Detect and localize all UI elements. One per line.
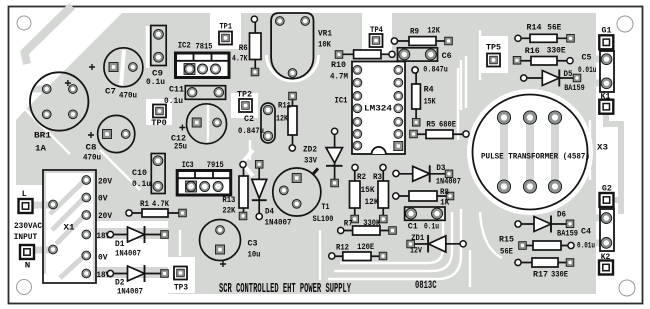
test point TP2	[237, 90, 252, 113]
resistor R16	[513, 46, 573, 66]
svg-text:T1: T1	[322, 202, 330, 212]
regulator IC3 7915	[177, 160, 231, 195]
svg-text:0.01u: 0.01u	[577, 241, 595, 251]
terminal G1	[599, 26, 613, 50]
mounting hole bottom-right	[619, 280, 635, 296]
svg-text:C4: C4	[581, 227, 591, 237]
svg-text:330E: 330E	[547, 46, 566, 56]
capacitor C3	[200, 220, 261, 268]
svg-text:BR1: BR1	[34, 131, 51, 141]
op-amp IC1 LM324	[335, 62, 406, 155]
zener ZD2	[303, 128, 343, 187]
svg-text:1K: 1K	[440, 198, 450, 208]
svg-text:680E: 680E	[439, 120, 456, 130]
resistor R14	[515, 23, 574, 43]
svg-text:TP5: TP5	[486, 43, 501, 53]
test point TP4	[370, 25, 384, 47]
svg-text:R4: R4	[424, 85, 434, 95]
svg-text:1N4007: 1N4007	[115, 249, 141, 259]
svg-text:G1: G1	[602, 26, 612, 36]
connector X1	[43, 170, 96, 283]
svg-text:G2: G2	[602, 184, 612, 194]
svg-text:22K: 22K	[222, 206, 236, 216]
svg-text:0V: 0V	[98, 253, 108, 263]
svg-text:0.847u: 0.847u	[423, 65, 448, 75]
svg-text:LM324: LM324	[364, 104, 392, 114]
svg-text:BA159: BA159	[557, 229, 578, 239]
svg-text:R13: R13	[222, 195, 235, 205]
resistor R12	[329, 242, 387, 261]
svg-text:20V: 20V	[98, 177, 113, 187]
regulator IC2 7815	[176, 41, 230, 78]
svg-text:12K: 12K	[427, 26, 440, 36]
resistor R6	[232, 16, 261, 76]
svg-text:7815: 7815	[196, 42, 213, 52]
svg-text:R11: R11	[278, 101, 291, 111]
svg-text:R2: R2	[357, 172, 366, 182]
mounting hole bottom-left	[17, 280, 32, 295]
svg-text:20V: 20V	[98, 211, 113, 221]
svg-text:330E: 330E	[551, 270, 568, 280]
diode D6	[515, 210, 578, 239]
svg-text:X3: X3	[597, 143, 608, 153]
capacitor C4 body	[600, 209, 614, 251]
capacitor C2	[238, 103, 275, 143]
svg-text:C7: C7	[105, 87, 116, 97]
svg-text:TP2: TP2	[237, 90, 252, 100]
svg-text:R14: R14	[527, 23, 542, 33]
resistor R10	[330, 50, 395, 82]
svg-text:33V: 33V	[304, 156, 318, 166]
svg-text:C8: C8	[86, 143, 97, 153]
resistor R1	[126, 199, 186, 217]
svg-text:56E: 56E	[547, 23, 561, 33]
resistor R17	[515, 258, 574, 280]
svg-text:PULSE TRANSFORMER (4587): PULSE TRANSFORMER (4587)	[481, 152, 590, 162]
230VAC INPUT label	[14, 221, 42, 242]
terminal L	[19, 189, 33, 213]
labels C5	[578, 53, 597, 76]
svg-text:IC2: IC2	[178, 41, 191, 51]
svg-text:R7: R7	[344, 219, 353, 229]
svg-text:0.01u: 0.01u	[578, 65, 597, 75]
svg-text:INPUT: INPUT	[14, 232, 38, 242]
capacitor C9	[146, 26, 166, 88]
svg-text:TP3: TP3	[174, 283, 188, 293]
svg-text:D6: D6	[557, 210, 566, 220]
preset VR1	[271, 13, 332, 79]
svg-text:TP4: TP4	[370, 25, 383, 35]
svg-text:N: N	[25, 261, 31, 271]
svg-text:230VAC: 230VAC	[14, 221, 42, 231]
svg-text:4.7K: 4.7K	[232, 54, 248, 64]
svg-text:15K: 15K	[361, 185, 376, 195]
mounting hole top-left	[17, 16, 31, 30]
svg-text:470u: 470u	[83, 153, 101, 163]
capacitor C12	[171, 104, 227, 152]
resistor R9	[391, 26, 452, 46]
traces inside clearance areas	[28, 56, 621, 279]
svg-text:K1: K1	[601, 92, 611, 102]
svg-text:0V: 0V	[98, 194, 108, 204]
svg-text:TP0: TP0	[151, 118, 167, 128]
svg-text:R5: R5	[426, 120, 435, 130]
resistor R3	[373, 164, 389, 222]
labels C4	[577, 227, 595, 251]
mounting hole top-right	[617, 16, 633, 32]
R2 R3 values	[361, 185, 380, 207]
svg-text:R9: R9	[410, 27, 419, 37]
svg-text:C6: C6	[442, 51, 452, 61]
test point TP0	[151, 105, 167, 129]
svg-text:C11: C11	[169, 85, 184, 95]
svg-text:R10: R10	[331, 60, 346, 70]
svg-text:R15: R15	[499, 235, 514, 245]
svg-text:56E: 56E	[500, 247, 513, 257]
resistor R8	[393, 187, 454, 208]
svg-text:0.1u: 0.1u	[146, 77, 165, 87]
capacitor C6	[398, 48, 452, 75]
svg-text:25u: 25u	[174, 142, 187, 152]
capacitor C11	[164, 85, 226, 107]
svg-text:VR1: VR1	[318, 29, 332, 39]
svg-text:1N4007: 1N4007	[436, 177, 461, 187]
terminal K1	[599, 92, 613, 114]
capacitor C10	[132, 154, 165, 194]
svg-text:SCR CONTROLLED EHT POWER SUPPL: SCR CONTROLLED EHT POWER SUPPLY	[219, 281, 351, 297]
svg-text:C2: C2	[244, 114, 254, 124]
bridge rectifier BR1	[30, 72, 88, 153]
svg-text:C3: C3	[248, 239, 258, 249]
diode D5	[521, 69, 585, 93]
capacitor C5 body	[600, 51, 614, 92]
terminal K2	[599, 252, 613, 275]
svg-text:D5: D5	[564, 69, 573, 79]
test point TP1	[219, 22, 232, 45]
svg-text:0.1u: 0.1u	[424, 222, 439, 232]
svg-text:C5: C5	[582, 53, 592, 63]
svg-text:K2: K2	[601, 252, 611, 262]
resistor R7	[338, 218, 397, 235]
svg-text:15K: 15K	[424, 97, 437, 107]
svg-text:TP1: TP1	[220, 22, 233, 32]
svg-text:D4: D4	[265, 207, 274, 217]
svg-text:L: L	[22, 189, 27, 199]
svg-text:R16: R16	[525, 46, 540, 56]
svg-text:1A: 1A	[35, 144, 47, 154]
svg-text:120E: 120E	[357, 242, 374, 252]
svg-text:4.7M: 4.7M	[330, 72, 348, 82]
terminal G2	[600, 184, 614, 208]
zener ZD1	[407, 233, 466, 256]
diode D1	[107, 226, 168, 259]
svg-text:0813C: 0813C	[415, 280, 437, 292]
trace top-left diagonal	[24, 6, 72, 53]
capacitor C7	[89, 48, 143, 101]
trace BR1 left stub	[33, 86, 47, 93]
svg-text:IC3: IC3	[182, 160, 194, 170]
svg-text:7915: 7915	[207, 160, 224, 170]
capacitor C1	[405, 207, 445, 232]
svg-text:IC1: IC1	[335, 96, 348, 106]
pulse transformer X3	[473, 95, 591, 210]
test point TP5	[486, 43, 501, 67]
transistor T1	[273, 168, 334, 224]
svg-text:R12: R12	[336, 243, 349, 253]
svg-text:ZD1: ZD1	[411, 233, 424, 243]
resistor R2	[350, 164, 367, 222]
svg-text:10u: 10u	[248, 250, 261, 260]
svg-text:R8: R8	[440, 187, 449, 197]
svg-text:4.7K: 4.7K	[152, 199, 170, 209]
resistor R5	[410, 120, 469, 139]
svg-text:470u: 470u	[119, 91, 137, 101]
svg-text:R6: R6	[239, 43, 248, 53]
svg-text:ZD2: ZD2	[303, 145, 317, 155]
resistor R15	[499, 235, 574, 257]
svg-text:1N4007: 1N4007	[265, 218, 292, 228]
svg-text:0.847u: 0.847u	[238, 126, 264, 136]
node R4 top	[412, 67, 418, 73]
svg-text:1N4007: 1N4007	[117, 287, 143, 297]
svg-text:330K: 330K	[363, 218, 381, 228]
svg-text:10K: 10K	[318, 40, 332, 50]
svg-text:12K: 12K	[365, 197, 380, 207]
svg-text:BA159: BA159	[564, 83, 585, 93]
svg-text:12V: 12V	[410, 246, 423, 256]
resistor R11	[276, 92, 297, 151]
svg-text:SL100: SL100	[313, 214, 334, 224]
svg-text:12K: 12K	[276, 114, 289, 124]
clearance meander lines	[22, 26, 590, 287]
test point TP3	[174, 267, 188, 293]
svg-text:D1: D1	[115, 239, 125, 249]
svg-text:0.1u: 0.1u	[132, 179, 151, 189]
diode D3	[393, 163, 461, 187]
svg-text:C10: C10	[132, 168, 147, 178]
resistor R13	[222, 161, 248, 219]
X1 pin labels	[97, 177, 113, 281]
svg-text:X1: X1	[64, 223, 75, 233]
svg-text:R3: R3	[373, 172, 382, 182]
diode D2	[107, 265, 168, 297]
diode D4	[252, 161, 292, 228]
svg-text:D3: D3	[436, 163, 445, 173]
terminal N	[20, 245, 34, 271]
svg-text:R17: R17	[533, 270, 548, 280]
capacitor C8	[83, 115, 135, 162]
resistor R4	[412, 67, 436, 126]
svg-text:C1: C1	[408, 222, 418, 232]
svg-text:R1: R1	[140, 199, 149, 209]
